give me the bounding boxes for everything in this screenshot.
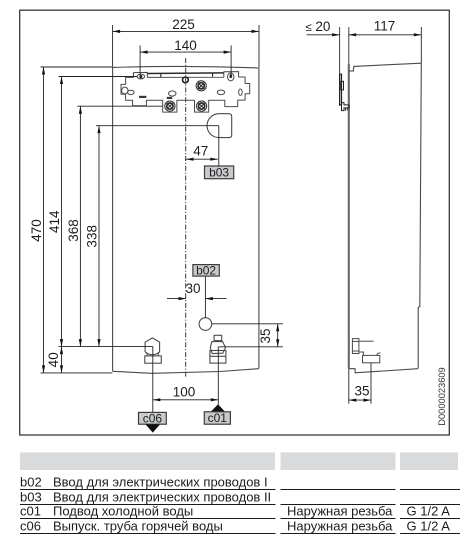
svg-text:b03: b03 (20, 489, 42, 504)
dimension 368 (66, 106, 82, 346)
side view connection fitting (363, 353, 381, 363)
legend table row rules (20, 490, 460, 534)
dimension 470 (29, 67, 45, 373)
centerline (185, 58, 187, 377)
svg-text:35: 35 (354, 383, 369, 398)
svg-text:Наружная резьба: Наружная резьба (287, 518, 393, 533)
legend row c01 (20, 504, 450, 519)
document number (437, 367, 447, 425)
bracket screw upper right (196, 81, 206, 91)
svg-text:140: 140 (174, 38, 197, 53)
legend row b03 (20, 489, 271, 504)
svg-text:b03: b03 (209, 165, 229, 179)
svg-text:b02: b02 (196, 263, 216, 277)
svg-text:Наружная резьба: Наружная резьба (287, 504, 393, 519)
bracket stamp mark left (139, 96, 146, 98)
bracket screw lower left (165, 101, 175, 111)
dimension 35 side (349, 363, 371, 404)
svg-text:35: 35 (258, 328, 273, 343)
svg-text:c01: c01 (20, 504, 41, 519)
bracket vertical oval right (239, 89, 243, 95)
dimension 225 (113, 25, 259, 68)
side view pipe stub (352, 339, 373, 356)
bracket rail edge (147, 73, 224, 77)
svg-text:47: 47 (193, 144, 208, 159)
bracket small holes left (122, 87, 135, 95)
svg-text:100: 100 (173, 385, 196, 400)
svg-text:Ввод для электрических проводо: Ввод для электрических проводов II (53, 489, 271, 504)
svg-text:b02: b02 (20, 474, 42, 489)
label c06 with leader and flow arrow (139, 347, 167, 433)
bracket oval hole mid right (217, 90, 224, 95)
bracket center hole (183, 77, 189, 83)
svg-text:30: 30 (185, 281, 200, 296)
dimension 35 front (212, 324, 283, 347)
cable inlet b03 elbow (207, 114, 232, 138)
svg-text:Подвод холодной воды: Подвод холодной воды (53, 504, 193, 519)
dimension 117 (349, 19, 422, 64)
bracket slot screw left (137, 74, 144, 79)
fitting c01 cold water inlet (210, 335, 226, 363)
side view wall line (339, 27, 341, 106)
svg-text:G 1/2 A: G 1/2 A (407, 504, 451, 519)
front view body outline (113, 66, 259, 373)
dimension less-equal 20 (306, 19, 340, 37)
svg-text:c01: c01 (208, 411, 228, 425)
svg-text:D0000023609: D0000023609 (437, 367, 447, 425)
dimension 140 (140, 46, 231, 77)
bracket screw lower right (197, 101, 207, 111)
svg-text:470: 470 (29, 219, 44, 242)
svg-text:40: 40 (46, 352, 61, 367)
svg-text:225: 225 (172, 17, 195, 32)
dimension 414 (47, 77, 63, 347)
fitting c06 hot water outlet (145, 338, 162, 363)
cable inlet b02 hole (199, 318, 212, 331)
dimension extension lines left (41, 67, 219, 373)
svg-text:G 1/2 A: G 1/2 A (407, 518, 451, 533)
bracket oval hole middle (167, 91, 176, 99)
dimension 47 (186, 144, 218, 161)
dimension 40 (46, 347, 63, 373)
dimension 338 (85, 126, 101, 347)
side view back panel (348, 27, 350, 369)
svg-text:Выпуск. труба горячей воды: Выпуск. труба горячей воды (53, 518, 223, 533)
label b02 with leader (193, 263, 219, 317)
bracket slot screw right (228, 73, 234, 81)
dimension 100 (153, 385, 219, 402)
svg-text:c06: c06 (20, 518, 41, 533)
svg-text:≤20: ≤20 (306, 19, 331, 34)
side view wall bracket (340, 74, 350, 111)
legend row b02 (20, 474, 268, 489)
svg-text:c06: c06 (143, 411, 163, 425)
label b03 with leader (205, 126, 234, 180)
legend row c06 (20, 518, 450, 533)
side view body profile (349, 63, 422, 373)
svg-text:338: 338 (85, 225, 100, 248)
legend table header bands (20, 452, 458, 470)
svg-text:368: 368 (66, 219, 81, 242)
svg-text:414: 414 (47, 210, 62, 233)
label c01 with leader and flow arrow (204, 347, 230, 425)
svg-text:Ввод для электрических проводо: Ввод для электрических проводов I (53, 474, 268, 489)
svg-text:117: 117 (374, 19, 396, 34)
dimension 30 (167, 281, 227, 300)
mounting bracket outline (121, 72, 250, 113)
